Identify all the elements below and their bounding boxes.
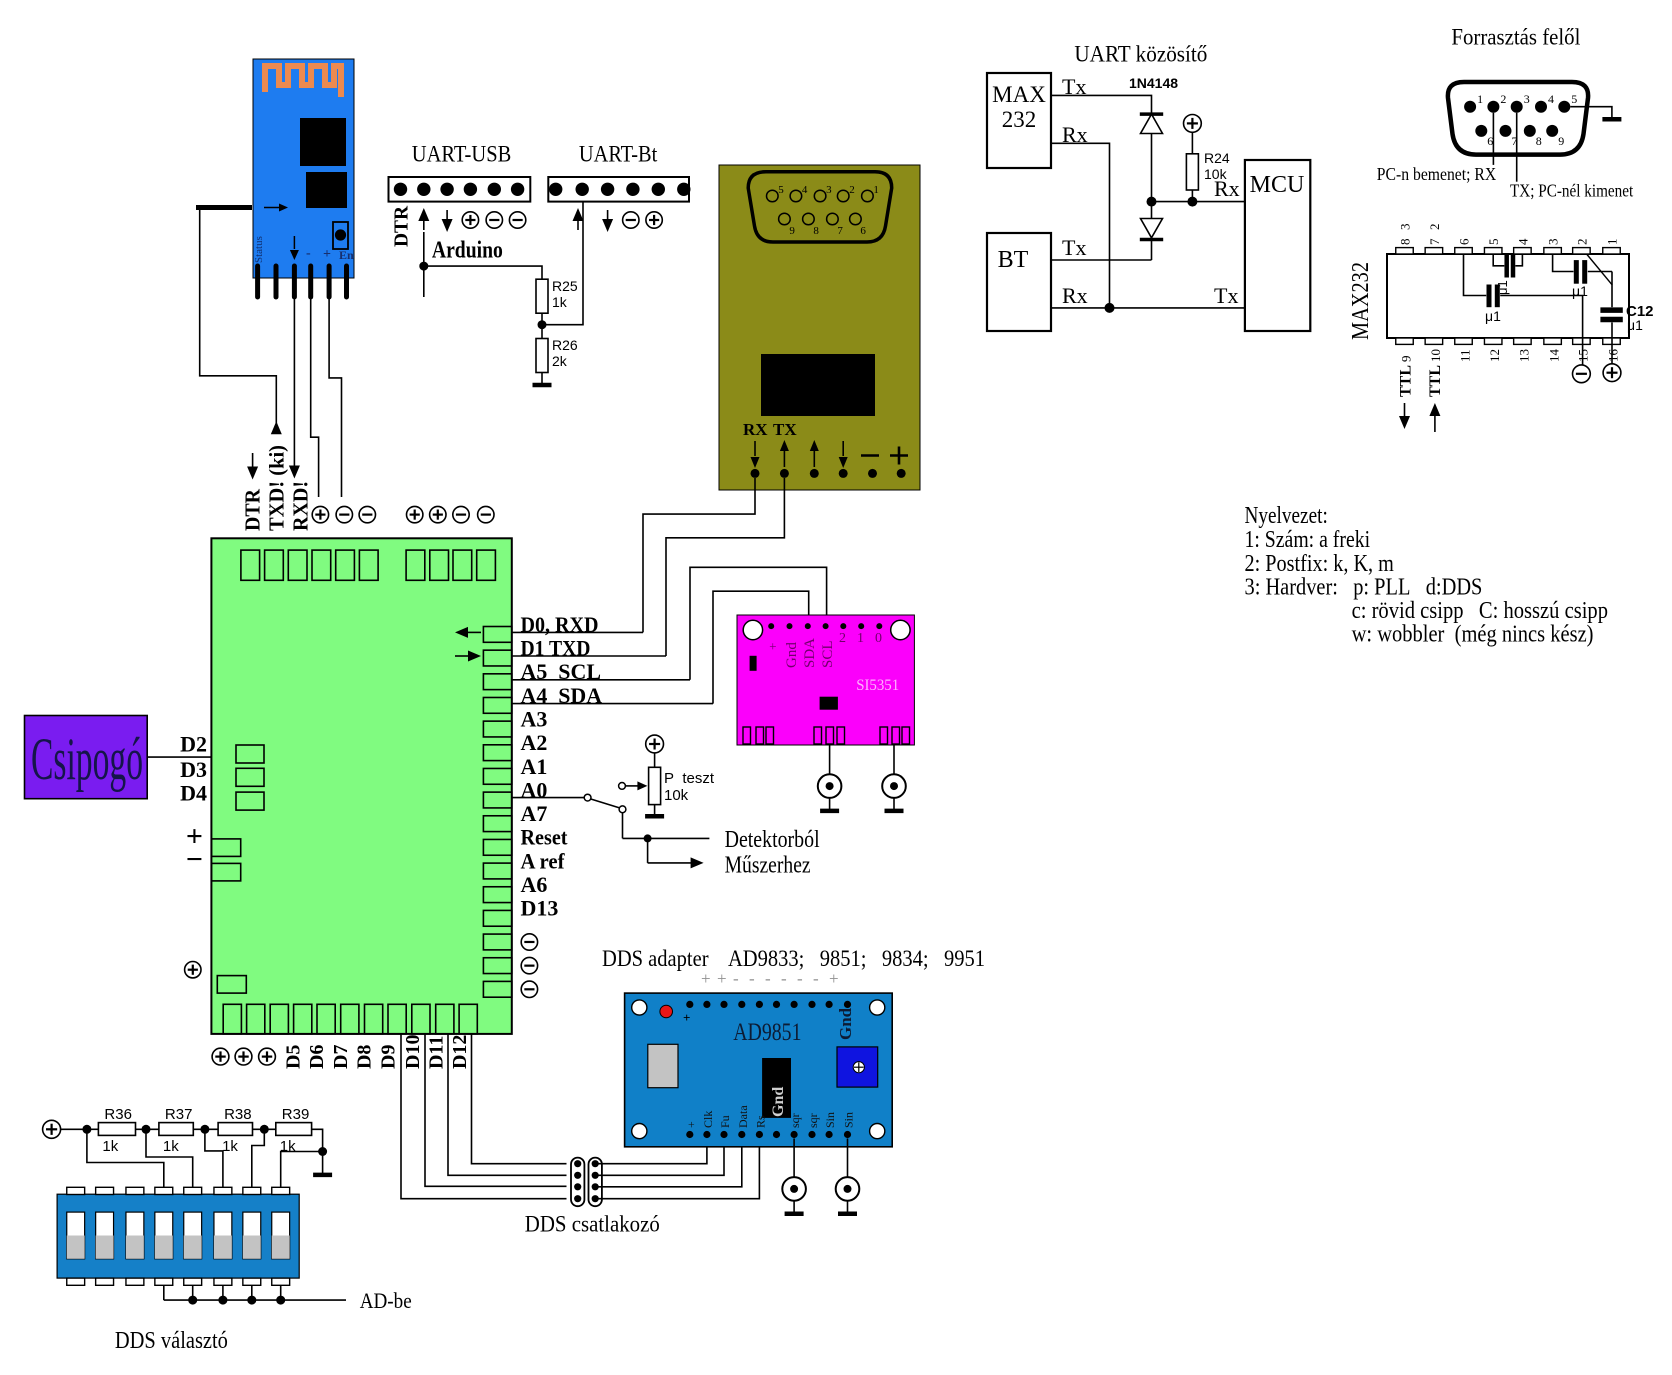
svg-text:Sin: Sin <box>823 1112 837 1128</box>
svg-text:12: 12 <box>1487 349 1502 362</box>
svg-text:6: 6 <box>860 225 866 237</box>
svg-text:A6: A6 <box>521 872 548 897</box>
svg-text:2: 2 <box>1574 239 1589 246</box>
svg-text:-: - <box>765 969 771 988</box>
svg-text:AD-be: AD-be <box>360 1288 412 1313</box>
svg-text:+: + <box>323 247 331 262</box>
svg-text:9: 9 <box>1558 134 1564 148</box>
svg-text:D13: D13 <box>521 896 559 921</box>
svg-text:μ1: μ1 <box>1485 308 1501 324</box>
svg-text:A1: A1 <box>521 754 548 779</box>
svg-text:1: 1 <box>1477 92 1483 106</box>
svg-text:6: 6 <box>1487 134 1493 148</box>
svg-text:UART-Bt: UART-Bt <box>579 142 658 167</box>
svg-text:2: 2 <box>1500 92 1506 106</box>
svg-text:R26: R26 <box>552 337 578 353</box>
svg-text:UART-USB: UART-USB <box>412 142 512 167</box>
svg-text:c: rövid csipp C: hosszú csi: c: rövid csipp C: hosszú csipp <box>1352 598 1608 624</box>
svg-text:A3: A3 <box>521 706 548 731</box>
svg-text:4: 4 <box>802 184 808 196</box>
svg-text:1k: 1k <box>102 1138 118 1155</box>
svg-text:TTL: TTL <box>1398 365 1415 397</box>
svg-text:D8: D8 <box>353 1045 375 1069</box>
svg-text:11: 11 <box>1458 349 1473 362</box>
svg-text:A0: A0 <box>521 777 548 802</box>
svg-text:Gnd: Gnd <box>770 1087 787 1117</box>
svg-text:SI5351: SI5351 <box>856 677 899 694</box>
svg-text:w: wobbler (még nincs kész): w: wobbler (még nincs kész) <box>1352 622 1594 648</box>
svg-text:R36: R36 <box>104 1106 132 1123</box>
svg-text:+: + <box>765 643 780 650</box>
svg-text:Csipogó: Csipogó <box>31 726 143 792</box>
svg-text:7: 7 <box>837 225 843 237</box>
svg-text:5: 5 <box>778 184 784 196</box>
svg-text:+: + <box>829 969 839 988</box>
svg-text:Detektorból: Detektorból <box>725 827 820 853</box>
svg-text:Gnd: Gnd <box>784 642 800 668</box>
svg-text:+: + <box>701 969 711 988</box>
svg-text:0: 0 <box>875 631 882 646</box>
svg-text:R37: R37 <box>165 1106 193 1123</box>
svg-text:TX; PC-nél kimenet: TX; PC-nél kimenet <box>1510 181 1633 201</box>
svg-text:-: - <box>797 969 803 988</box>
svg-text:Fu: Fu <box>718 1115 732 1128</box>
svg-text:1k: 1k <box>552 294 568 310</box>
svg-text:-: - <box>749 969 755 988</box>
svg-text:AD9851: AD9851 <box>733 1019 801 1046</box>
svg-text:R25: R25 <box>552 278 578 294</box>
svg-text:μ1: μ1 <box>1572 283 1588 299</box>
svg-text:D6: D6 <box>306 1045 328 1069</box>
svg-text:TXD! (ki): TXD! (ki) <box>265 445 289 531</box>
svg-text:TTL: TTL <box>1427 365 1444 397</box>
svg-text:10k: 10k <box>664 787 689 804</box>
svg-text:-: - <box>306 246 311 261</box>
svg-text:1k: 1k <box>163 1138 179 1155</box>
svg-text:1N4148: 1N4148 <box>1129 75 1178 91</box>
svg-text:3: 3 <box>826 184 832 196</box>
svg-text:Tx: Tx <box>1214 283 1238 308</box>
svg-text:En: En <box>339 248 354 262</box>
svg-text:−: − <box>186 843 203 876</box>
svg-text:5: 5 <box>1571 92 1577 106</box>
svg-text:1: 1 <box>873 184 879 196</box>
svg-text:232: 232 <box>1002 107 1037 132</box>
svg-text:Tx: Tx <box>1062 235 1086 260</box>
svg-text:Data: Data <box>736 1105 750 1128</box>
svg-text:P teszt: P teszt <box>664 770 715 787</box>
svg-text:MCU: MCU <box>1250 172 1305 198</box>
svg-text:DDS csatlakozó: DDS csatlakozó <box>525 1212 660 1237</box>
svg-text:7: 7 <box>1427 238 1442 245</box>
svg-text:D12: D12 <box>449 1035 471 1069</box>
svg-text:RX: RX <box>743 420 768 439</box>
svg-text:Status: Status <box>253 236 265 263</box>
svg-text:D9: D9 <box>378 1045 400 1069</box>
svg-text:sqr: sqr <box>806 1113 820 1128</box>
svg-text:3: 3 <box>1398 224 1413 231</box>
svg-text:sqr: sqr <box>788 1113 802 1128</box>
svg-text:R24: R24 <box>1204 150 1230 166</box>
svg-text:D10: D10 <box>402 1035 424 1069</box>
svg-text:3: 3 <box>1524 92 1530 106</box>
svg-text:TX: TX <box>773 420 797 439</box>
svg-text:Reset: Reset <box>521 825 569 850</box>
svg-text:6: 6 <box>1457 238 1472 245</box>
svg-text:14: 14 <box>1547 349 1562 363</box>
svg-text:Nyelvezet:: Nyelvezet: <box>1245 503 1328 529</box>
svg-text:R39: R39 <box>282 1106 310 1123</box>
svg-text:R38: R38 <box>224 1106 252 1123</box>
svg-text:-: - <box>781 969 787 988</box>
svg-text:2: 2 <box>849 184 855 196</box>
svg-text:MAX232: MAX232 <box>1348 262 1374 340</box>
svg-text:A2: A2 <box>521 730 548 755</box>
svg-text:1: 1 <box>1605 239 1620 246</box>
svg-text:Forrasztás felől: Forrasztás felől <box>1451 25 1580 50</box>
svg-text:MAX: MAX <box>992 82 1046 107</box>
svg-text:+: + <box>717 969 727 988</box>
svg-text:16: 16 <box>1606 349 1621 363</box>
svg-text:8: 8 <box>1398 239 1413 246</box>
svg-text:4: 4 <box>1548 92 1554 106</box>
svg-text:A ref: A ref <box>521 848 566 873</box>
svg-text:UART közösítő: UART közösítő <box>1074 42 1207 67</box>
svg-text:D2: D2 <box>180 732 207 757</box>
svg-text:Gnd: Gnd <box>836 1007 855 1040</box>
svg-text:1k: 1k <box>222 1138 238 1155</box>
svg-text:Rx: Rx <box>1062 283 1088 308</box>
svg-text:Sin: Sin <box>842 1112 856 1128</box>
svg-text:-: - <box>813 969 819 988</box>
svg-text:D5: D5 <box>283 1045 305 1069</box>
svg-text:2: 2 <box>839 631 846 646</box>
svg-text:8: 8 <box>813 225 819 237</box>
svg-text:A7: A7 <box>521 801 548 826</box>
svg-text:D3: D3 <box>180 757 207 782</box>
svg-text:3: 3 <box>1546 239 1561 246</box>
svg-text:D4: D4 <box>180 781 207 806</box>
svg-text:2: Postfix: k, K, m: 2: Postfix: k, K, m <box>1245 551 1395 577</box>
svg-text:2: 2 <box>1427 224 1442 231</box>
svg-text:SCL: SCL <box>820 640 836 668</box>
svg-text:-: - <box>733 969 739 988</box>
svg-text:DDS választó: DDS választó <box>115 1328 228 1354</box>
svg-text:4: 4 <box>1515 238 1530 245</box>
svg-text:1: 1 <box>857 631 864 646</box>
svg-text:μ1: μ1 <box>1627 317 1643 333</box>
svg-text:1k: 1k <box>280 1138 296 1155</box>
svg-text:+: + <box>683 1010 690 1025</box>
svg-text:Rs: Rs <box>753 1115 767 1128</box>
svg-text:DTR: DTR <box>241 488 265 531</box>
svg-text:DDS adapter AD9833; 9851;: DDS adapter AD9833; 9851; 9834; 9951 <box>602 946 985 971</box>
svg-text:3: Hardver: p: PLL d:DDS: 3: Hardver: p: PLL d:DDS <box>1245 575 1483 601</box>
svg-text:9: 9 <box>789 225 795 237</box>
svg-text:Arduino: Arduino <box>432 238 503 264</box>
svg-text:+: + <box>684 1121 698 1128</box>
svg-text:8: 8 <box>1536 134 1542 148</box>
svg-text:1: Szám: a freki: 1: Szám: a freki <box>1245 527 1371 553</box>
svg-text:10: 10 <box>1428 349 1443 362</box>
svg-text:RXD!: RXD! <box>289 481 313 531</box>
svg-text:D11: D11 <box>426 1036 448 1069</box>
svg-text:13: 13 <box>1516 349 1531 362</box>
svg-text:D7: D7 <box>330 1045 352 1069</box>
svg-text:10k: 10k <box>1204 166 1228 182</box>
svg-text:Clk: Clk <box>701 1111 715 1128</box>
svg-text:PC-n bemenet; RX: PC-n bemenet; RX <box>1377 164 1496 184</box>
svg-text:9: 9 <box>1399 356 1414 363</box>
svg-text:DTR: DTR <box>391 205 413 247</box>
svg-text:5: 5 <box>1486 239 1501 246</box>
svg-text:2k: 2k <box>552 353 568 369</box>
svg-text:SDA: SDA <box>802 638 818 668</box>
svg-text:Műszerhez: Műszerhez <box>725 853 811 879</box>
svg-text:BT: BT <box>998 247 1029 273</box>
